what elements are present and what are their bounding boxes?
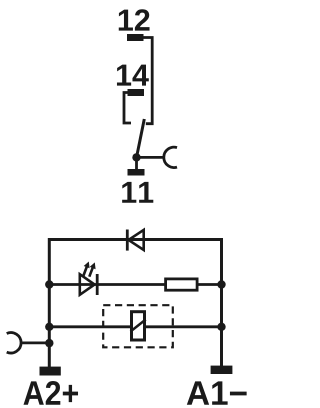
terminal 11 contact pad xyxy=(128,169,145,176)
relay coil dashed enclosure xyxy=(103,305,173,347)
wire from terminal 14 to NO fixed contact xyxy=(124,93,131,124)
node: left bus / coil branch xyxy=(45,323,53,331)
actuator half-circle symbol (top) xyxy=(164,147,177,167)
wire from left bus to actuator arc (bottom) xyxy=(21,341,50,344)
node: left bus / LED branch xyxy=(45,280,53,288)
wire: relay coil branch xyxy=(49,325,221,328)
wire from terminal 12 to NC fixed contact xyxy=(143,38,152,124)
terminal 12 contact pad xyxy=(127,34,144,41)
relay coil diagonal xyxy=(131,320,146,332)
terminal label A2+ xyxy=(24,381,79,405)
wire: LED / resistor branch xyxy=(49,283,221,286)
terminal label A1- xyxy=(187,381,247,404)
diode V1 cathode bar xyxy=(126,230,129,251)
terminal A2 contact pad xyxy=(40,367,61,376)
node: right bus / LED branch xyxy=(217,280,225,288)
node: common junction 11 xyxy=(132,153,140,161)
node: right bus / coil branch xyxy=(217,323,225,331)
wire: outer loop (left bus, top wire, right bus) xyxy=(49,240,221,368)
switch movable arm (common 11) xyxy=(137,119,145,158)
terminal label 14 xyxy=(117,65,149,86)
relay coil K1 body xyxy=(132,312,145,340)
wire from junction to actuator arc xyxy=(137,156,164,159)
terminal label 12 xyxy=(119,9,150,30)
diode V1 triangle xyxy=(129,230,144,250)
LED emission arrow 2 xyxy=(89,267,93,277)
wire junction to terminal 11 xyxy=(135,157,138,169)
terminal 14 contact pad xyxy=(128,89,145,96)
terminal label 11 xyxy=(122,182,153,203)
actuator half-circle symbol (bottom) xyxy=(7,333,21,353)
node: left bus / actuator branch xyxy=(45,339,53,347)
resistor R1 xyxy=(166,279,198,290)
LED triangle xyxy=(80,274,95,295)
LED emission arrow 1 xyxy=(83,267,87,277)
LED cathode bar xyxy=(96,274,99,295)
terminal A1 contact pad xyxy=(211,366,233,374)
